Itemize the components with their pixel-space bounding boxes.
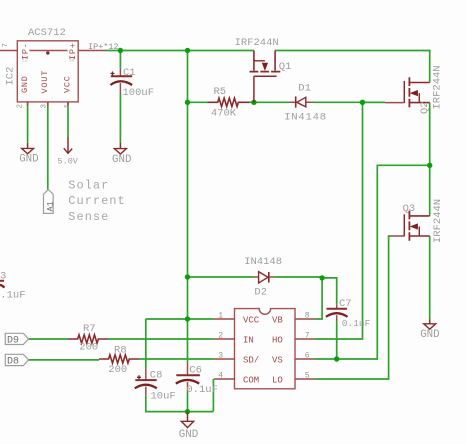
wire Q2 source to Q3 drain bbox=[429, 103, 431, 216]
svg-text:12: 12 bbox=[22, 58, 28, 64]
svg-text:VOUT: VOUT bbox=[40, 70, 50, 94]
wire IC2 VCC pin to 5.0V bbox=[67, 102, 69, 137]
wire bootstrap node to C7 top bbox=[322, 278, 337, 305]
svg-text:IP+: IP+ bbox=[68, 42, 78, 60]
svg-text:3: 3 bbox=[218, 352, 223, 361]
svg-text:Q3: Q3 bbox=[403, 203, 416, 215]
5.0V supply arrow below IC2 VCC pin bbox=[58, 137, 79, 167]
wire D1 to HO riser to Q2 gate bbox=[313, 101, 385, 103]
svg-text:R8: R8 bbox=[114, 345, 127, 357]
wire C8 bottom to ground rail bbox=[146, 396, 214, 412]
svg-text:6: 6 bbox=[305, 352, 310, 361]
svg-text:IP+*12: IP+*12 bbox=[88, 42, 119, 52]
svg-text:2: 2 bbox=[218, 332, 223, 341]
svg-text:1: 1 bbox=[218, 312, 223, 321]
resistor R7 200 bbox=[68, 323, 108, 354]
svg-text:D2: D2 bbox=[254, 287, 267, 299]
wire LO row riser to Q3 gate bbox=[315, 236, 391, 379]
svg-text:GND: GND bbox=[420, 329, 439, 341]
wire D2 row from VCC rail bbox=[188, 276, 254, 278]
wire C1 bottom to GND bbox=[119, 94, 121, 143]
svg-text:100uF: 100uF bbox=[123, 87, 155, 99]
text Solar Current Sense bbox=[68, 179, 125, 225]
svg-text:R7: R7 bbox=[83, 323, 96, 335]
capacitor C8 10uF bbox=[135, 368, 176, 402]
connector D8 bbox=[5, 354, 28, 367]
svg-text:Q2: Q2 bbox=[419, 101, 431, 114]
resistor R5 470K bbox=[207, 86, 249, 120]
wire D9 to R7 bbox=[29, 338, 69, 340]
diode D1 IN4148 bbox=[284, 83, 327, 124]
wire VS row to switch-node riser bbox=[315, 165, 430, 359]
svg-text:ACS712: ACS712 bbox=[28, 27, 66, 39]
svg-text:VS: VS bbox=[272, 355, 283, 365]
svg-text:VB: VB bbox=[272, 315, 283, 325]
svg-text:COM: COM bbox=[243, 375, 259, 385]
svg-text:C8: C8 bbox=[150, 369, 163, 381]
capacitor C1 100uF bbox=[111, 67, 155, 99]
svg-text:LO: LO bbox=[272, 375, 283, 385]
connector D9 bbox=[5, 333, 28, 346]
wire D2 to bootstrap node bbox=[274, 276, 322, 278]
svg-text:5: 5 bbox=[305, 372, 310, 381]
connector A1 bbox=[44, 190, 56, 214]
transistor Q2 IRF244N bbox=[385, 65, 443, 114]
svg-text:Current: Current bbox=[68, 194, 125, 208]
IC2 ACS712 current sensor bbox=[0, 27, 105, 109]
wire C7 bottom to VS row bbox=[336, 321, 338, 359]
svg-text:8: 8 bbox=[305, 312, 310, 321]
capacitor C6 0.1uF bbox=[176, 363, 218, 396]
ground symbol below IC2 GND pin bbox=[19, 143, 38, 166]
svg-text:IRF244N: IRF244N bbox=[431, 65, 443, 109]
svg-text:C6: C6 bbox=[189, 364, 202, 376]
svg-text:C3: C3 bbox=[0, 270, 6, 282]
wire VCC pin row to C8 branch bbox=[146, 318, 214, 320]
svg-text:GND: GND bbox=[20, 75, 30, 93]
capacitor C3 partial at left edge bbox=[0, 270, 26, 301]
svg-text:34: 34 bbox=[69, 58, 75, 64]
transistor Q1 IRF244N bbox=[235, 37, 292, 102]
svg-text:0.1uF: 0.1uF bbox=[186, 384, 218, 396]
svg-text:R5: R5 bbox=[214, 86, 227, 98]
wire C6 bottom to ground rail bbox=[187, 392, 189, 412]
svg-text:470K: 470K bbox=[211, 108, 237, 120]
wire Q3 source down to GND bbox=[429, 236, 431, 319]
svg-text:VCC: VCC bbox=[243, 315, 260, 325]
svg-text:VCC: VCC bbox=[63, 75, 73, 93]
svg-text:Sense: Sense bbox=[68, 210, 109, 224]
svg-text:GND: GND bbox=[19, 154, 38, 166]
wire R7 to IN pin bbox=[108, 338, 214, 340]
svg-text:7: 7 bbox=[305, 332, 310, 341]
svg-text:C1: C1 bbox=[123, 67, 136, 79]
wire C8 loop left vertical top bbox=[145, 319, 147, 368]
svg-text:200: 200 bbox=[108, 364, 127, 376]
svg-text:0.1uF: 0.1uF bbox=[0, 290, 26, 302]
svg-text:5.0V: 5.0V bbox=[58, 157, 79, 167]
svg-text:HO: HO bbox=[272, 335, 283, 345]
wire VCC rail vertical x=187.5 bbox=[187, 51, 189, 363]
svg-text:4: 4 bbox=[218, 372, 223, 381]
svg-text:200: 200 bbox=[79, 342, 98, 354]
svg-text:SD/: SD/ bbox=[243, 355, 259, 365]
wire R8 to SD pin bbox=[139, 358, 214, 360]
capacitor C7 0.1uF bbox=[326, 298, 371, 329]
wire IC2 VOUT pin to A1 bbox=[47, 102, 49, 190]
svg-text:IN: IN bbox=[243, 335, 254, 345]
wire C1 top tap bbox=[119, 51, 121, 70]
wire top rail from IC2 IP+ to Q1 bbox=[105, 50, 254, 52]
svg-text:IRF244N: IRF244N bbox=[432, 199, 444, 243]
svg-text:GND: GND bbox=[179, 429, 198, 441]
wire D8 to R8 bbox=[29, 359, 100, 361]
svg-text:A1: A1 bbox=[46, 201, 56, 211]
wire gate row y=102.3 from VCC rail to R5 bbox=[188, 101, 208, 103]
wire Q2 gate green part bbox=[363, 101, 386, 103]
svg-text:IRF244N: IRF244N bbox=[235, 37, 279, 49]
svg-text:0.1uF: 0.1uF bbox=[342, 318, 371, 329]
wire HO riser x=362.5 bbox=[315, 102, 363, 339]
svg-text:1: 1 bbox=[64, 104, 72, 109]
svg-text:Q1: Q1 bbox=[279, 61, 292, 73]
svg-text:C7: C7 bbox=[339, 298, 352, 310]
svg-text:Solar: Solar bbox=[68, 179, 109, 193]
svg-text:D9: D9 bbox=[7, 336, 19, 347]
ground symbol below C1 bbox=[112, 143, 131, 166]
IC IR2104 gate driver box bbox=[214, 309, 315, 389]
svg-text:IP-: IP- bbox=[20, 42, 30, 60]
wire VB riser bbox=[315, 278, 322, 319]
svg-text:IN4148: IN4148 bbox=[284, 112, 327, 124]
ground symbol center bottom bbox=[179, 412, 198, 441]
svg-text:GND: GND bbox=[112, 154, 131, 166]
svg-text:IC2: IC2 bbox=[4, 67, 16, 86]
svg-text:2: 2 bbox=[17, 104, 25, 109]
svg-text:3: 3 bbox=[41, 104, 49, 109]
svg-text:IN4148: IN4148 bbox=[244, 256, 282, 268]
wire IC2 GND pin bbox=[27, 102, 29, 143]
svg-text:7: 7 bbox=[2, 43, 10, 48]
wire COM drop bbox=[212, 379, 214, 412]
net label IP+*12 bbox=[88, 42, 119, 52]
node junction dots bbox=[118, 48, 433, 415]
svg-text:D1: D1 bbox=[298, 83, 311, 95]
ground symbol below Q3 source bbox=[420, 319, 439, 341]
resistor R8 200 bbox=[99, 345, 139, 376]
wire R5 to Q1 gate node to D1 bbox=[250, 101, 290, 103]
wire top rail Q1 to top-right corner down to Q2 drain bbox=[275, 51, 430, 83]
transistor Q3 IRF244N bbox=[391, 199, 444, 243]
svg-text:10uF: 10uF bbox=[151, 390, 176, 402]
svg-text:D8: D8 bbox=[7, 357, 19, 368]
diode D2 IN4148 bbox=[244, 256, 282, 299]
